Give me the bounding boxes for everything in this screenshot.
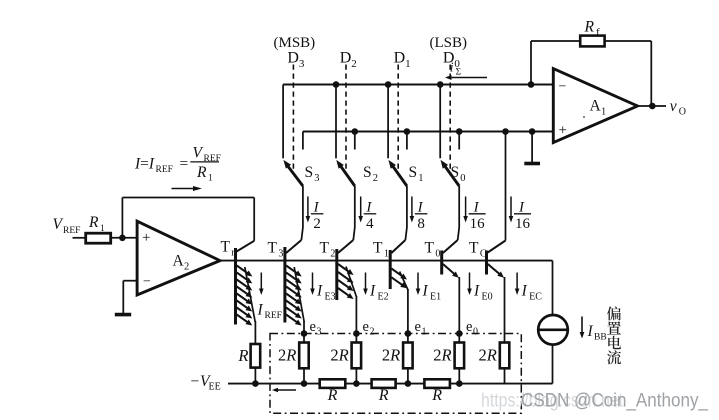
- node: junction dots on ground bus: [352, 128, 359, 135]
- svg-text:R: R: [327, 387, 338, 404]
- svg-text:S: S: [305, 164, 314, 181]
- transistor Tr emitter rail: [245, 267, 255, 322]
- transistor collector diagonal: [443, 240, 458, 253]
- svg-text:S: S: [451, 164, 460, 181]
- wire: A2 inverting input to ground: [123, 280, 137, 282]
- svg-text:2: 2: [370, 327, 375, 338]
- switch S3: [282, 85, 284, 159]
- transistor collector diagonal: [338, 240, 353, 253]
- current arrow I/8: [411, 197, 413, 218]
- svg-text:S: S: [409, 164, 418, 181]
- wire: switch arm to transistor collector: [406, 186, 408, 228]
- svg-text:D: D: [394, 49, 406, 66]
- svg-text:16: 16: [470, 216, 486, 232]
- wire: summing bus to A1 inverting input: [283, 84, 553, 86]
- svg-text:E0: E0: [482, 292, 493, 303]
- svg-text:−: −: [559, 80, 567, 95]
- arrow pointing left below rail: [277, 389, 296, 391]
- wire: TC emitter down: [504, 277, 506, 343]
- svg-text:3: 3: [278, 249, 283, 260]
- svg-text:−: −: [143, 275, 151, 290]
- svg-text:2: 2: [373, 173, 378, 184]
- resistor R (ladder, horizontal): [320, 379, 346, 388]
- svg-text:C: C: [480, 249, 487, 260]
- switch S1: [387, 85, 389, 159]
- svg-text:T: T: [221, 239, 231, 256]
- node dots on -VEE rail: [252, 380, 259, 387]
- svg-text:BB: BB: [594, 333, 607, 343]
- svg-text:D: D: [443, 49, 455, 66]
- svg-text:3: 3: [317, 327, 322, 338]
- svg-text:V: V: [193, 145, 204, 162]
- svg-text:T: T: [373, 240, 383, 257]
- wire: current source bottom to rail: [552, 345, 554, 384]
- resistor R (ladder, horizontal): [372, 379, 396, 388]
- svg-text:0: 0: [454, 58, 460, 70]
- resistor R (emitter of Tr): [251, 344, 261, 368]
- svg-text:REF: REF: [156, 165, 173, 175]
- svg-text:2: 2: [351, 58, 357, 70]
- svg-text:e: e: [415, 319, 421, 335]
- svg-text:I: I: [518, 199, 525, 215]
- svg-text:I: I: [587, 323, 594, 340]
- label bias-current (CJK): [607, 306, 621, 320]
- transistor collector diagonal: [391, 240, 405, 253]
- resistor Rf: [580, 36, 604, 47]
- current arrow I/16: [465, 197, 467, 218]
- transistor TC collector up to ground bus: [488, 241, 506, 253]
- svg-text:R: R: [196, 164, 207, 181]
- wire: base rail corner down to bias current source: [552, 261, 554, 316]
- wire: switch arm to transistor collector: [302, 186, 304, 228]
- svg-text:I: I: [422, 283, 429, 300]
- transistor Tr multi-emitter hatch arrows: [237, 266, 248, 274]
- svg-text:I: I: [521, 283, 528, 300]
- svg-text:1: 1: [418, 173, 423, 184]
- svg-text:I: I: [316, 283, 323, 300]
- wire: T3 emitter down: [303, 321, 305, 334]
- wires: resistor bottoms to rail: [254, 368, 256, 384]
- svg-text:R: R: [88, 214, 99, 231]
- transistor collector diagonal: [286, 240, 301, 253]
- svg-text:I=I: I=I: [134, 156, 155, 173]
- node e1: [405, 330, 412, 337]
- svg-text:f: f: [596, 27, 600, 39]
- svg-text:V: V: [53, 216, 64, 233]
- wire: dashed control line from D2: [345, 65, 347, 171]
- resistor 2R at x=356.4: [352, 343, 362, 369]
- wire: -VEE supply rail: [228, 383, 553, 385]
- svg-text:T: T: [320, 240, 330, 257]
- wire: feedback loop around A1: [530, 41, 532, 85]
- svg-text:E2: E2: [378, 292, 389, 303]
- wire: switch arm to transistor collector: [354, 186, 356, 228]
- svg-text:0: 0: [435, 249, 440, 260]
- svg-text:REF: REF: [265, 311, 282, 321]
- ground at A2: [115, 313, 131, 317]
- transistor T1 multi-emitter hatch arrows: [391, 269, 402, 277]
- svg-text:2R: 2R: [278, 346, 296, 365]
- transistor T3 multi-emitter hatch arrows: [286, 266, 297, 274]
- svg-text:e: e: [466, 319, 472, 335]
- transistor TC (bar): [485, 251, 488, 275]
- current arrow I/16: [510, 197, 512, 218]
- transistor T2 emitter rail: [346, 267, 357, 298]
- svg-text:e: e: [310, 319, 316, 335]
- svg-text:D: D: [287, 49, 299, 66]
- svg-text:1: 1: [208, 174, 213, 184]
- svg-text:16: 16: [515, 216, 531, 232]
- ground at A1 non-inverting input: [531, 132, 533, 163]
- svg-text:R: R: [237, 346, 248, 365]
- svg-text:0: 0: [460, 173, 465, 184]
- current arrow I_E2: [365, 273, 367, 290]
- current arrow I/4: [360, 197, 362, 218]
- svg-text:8: 8: [417, 216, 425, 232]
- transistor T2 (bar): [335, 249, 338, 300]
- node: A2 input junction: [119, 235, 126, 242]
- svg-text:I: I: [313, 199, 320, 215]
- svg-text:1: 1: [601, 107, 606, 118]
- svg-text:D: D: [340, 49, 352, 66]
- current arrow I_EC: [516, 273, 518, 290]
- wire: dashed control line from D1: [397, 65, 399, 171]
- wire: A1 output: [638, 105, 667, 107]
- svg-text:A: A: [590, 98, 602, 115]
- resistor 2R at x=459.3: [455, 343, 465, 369]
- transistor T0 emitter arrow: [443, 264, 455, 274]
- svg-text:1: 1: [384, 249, 389, 260]
- node: output junction: [649, 103, 656, 110]
- current arrow I_E0: [469, 273, 471, 290]
- svg-text:4: 4: [366, 216, 374, 232]
- node e3: [301, 330, 308, 337]
- current arrow I_E1: [417, 273, 419, 290]
- svg-text:S: S: [363, 164, 372, 181]
- svg-text:I: I: [473, 283, 480, 300]
- dashed boundary frame of R-2R network: [270, 334, 521, 414]
- current arrow I_BB: [581, 317, 583, 334]
- svg-text:E1: E1: [430, 292, 441, 303]
- svg-text:I: I: [365, 199, 372, 215]
- transistor T1 (bar): [389, 250, 392, 289]
- transistor Tr (bar): [234, 248, 237, 325]
- svg-text:REF: REF: [63, 226, 80, 236]
- svg-text:T: T: [268, 240, 278, 257]
- current source I_BB (circle): [538, 315, 568, 345]
- wire: Tr emitter down: [254, 321, 256, 344]
- wire: T2 emitter down: [355, 296, 357, 334]
- transistor T3 (bar): [283, 247, 286, 323]
- svg-text:2: 2: [184, 261, 189, 272]
- svg-text:e: e: [363, 319, 369, 335]
- wire: T1 emitter down: [407, 289, 409, 334]
- svg-text:T: T: [469, 240, 479, 257]
- transistor T3 emitter rail: [294, 267, 304, 322]
- switch S2: [335, 85, 337, 159]
- wire: e3..e0 nodes to 2R resistors: [303, 334, 305, 344]
- svg-text:A: A: [173, 252, 185, 269]
- svg-text:2R: 2R: [382, 346, 400, 365]
- svg-text:I: I: [473, 199, 480, 215]
- current arrow I_E3: [312, 273, 314, 290]
- svg-text:EC: EC: [529, 292, 542, 303]
- svg-text:+: +: [142, 230, 150, 246]
- transistor TC emitter arrow: [488, 264, 500, 274]
- transistor T2 multi-emitter hatch arrows: [338, 264, 349, 272]
- transistor Tr collector to feedback: [237, 241, 255, 252]
- wire: ground bus to A1 non-inverting input: [303, 131, 553, 133]
- wire: dashed control line from D3: [292, 65, 294, 171]
- svg-text:=: =: [180, 156, 189, 173]
- wire: VREF input: [73, 237, 86, 239]
- svg-text:I: I: [257, 302, 264, 319]
- svg-text:T: T: [425, 240, 435, 257]
- svg-text:1: 1: [422, 327, 427, 338]
- transistor T1 emitter rail: [400, 272, 408, 291]
- svg-text:I: I: [417, 199, 424, 215]
- svg-text:EE: EE: [209, 382, 221, 393]
- resistor 2R at x=407.9: [403, 343, 413, 369]
- svg-text:2R: 2R: [433, 346, 451, 365]
- node: junction dots on summing bus: [333, 81, 340, 88]
- op-amp A1: [553, 69, 637, 143]
- resistor R1: [86, 233, 111, 243]
- current arrow I_REF: [260, 273, 262, 290]
- switch S0: [439, 85, 441, 159]
- op-amp A2: [137, 221, 220, 295]
- wire: feedback from Tr collector to A2 input: [122, 197, 254, 199]
- svg-text:v: v: [670, 98, 677, 115]
- svg-text:1: 1: [405, 58, 411, 70]
- node e2: [353, 330, 360, 337]
- wire: common base rail from A2 output: [220, 260, 553, 262]
- svg-text:3: 3: [314, 173, 319, 184]
- svg-text:R: R: [378, 387, 389, 404]
- resistor 2R at x=504.5: [500, 343, 510, 369]
- wire: T0 emitter down: [458, 277, 460, 334]
- svg-text:O: O: [679, 106, 686, 117]
- svg-text:2: 2: [313, 216, 321, 232]
- svg-text:CSDN @Coin_Anthony_: CSDN @Coin_Anthony_: [521, 390, 709, 412]
- svg-text:2: 2: [330, 249, 335, 260]
- transistor T0 (bar): [440, 251, 443, 275]
- svg-text:R: R: [584, 19, 595, 36]
- svg-text:2R: 2R: [478, 346, 496, 365]
- node e0: [456, 330, 463, 337]
- svg-text:2R: 2R: [330, 346, 348, 365]
- svg-text:E3: E3: [325, 292, 336, 303]
- svg-text:R: R: [431, 387, 442, 404]
- arrow: reference current direction: [172, 188, 195, 190]
- resistor R (ladder, horizontal): [424, 379, 450, 388]
- svg-text:3: 3: [299, 58, 305, 70]
- wire: switch arm to transistor collector: [458, 186, 460, 228]
- svg-text:+: +: [559, 123, 567, 139]
- svg-text:0: 0: [473, 327, 478, 338]
- wire: R1 to A2 input: [111, 237, 137, 239]
- svg-text:I: I: [369, 283, 376, 300]
- wire: dashed control line from D0: [449, 65, 451, 171]
- current arrow I/2: [307, 197, 309, 218]
- resistor 2R at x=304.0: [299, 343, 309, 369]
